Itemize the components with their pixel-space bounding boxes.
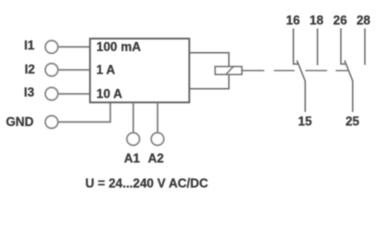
svg-text:U = 24...240 V AC/DC: U = 24...240 V AC/DC xyxy=(85,177,208,191)
terminal circle A2 xyxy=(151,133,164,146)
svg-text:28: 28 xyxy=(356,14,370,28)
contact arm 15-16 xyxy=(297,60,305,112)
wire I2 to box xyxy=(59,69,90,71)
svg-text:10 A: 10 A xyxy=(96,87,122,101)
wire box to A1 xyxy=(132,102,134,132)
relay coil K1 xyxy=(215,67,242,75)
wire box to coil bottom xyxy=(189,75,229,89)
wire coil to linkage xyxy=(242,70,264,72)
svg-text:26: 26 xyxy=(333,14,347,28)
svg-text:18: 18 xyxy=(310,14,324,28)
wire I1 to box xyxy=(59,46,90,48)
coil slash xyxy=(226,66,234,75)
contact arm 25-26 xyxy=(345,60,353,112)
svg-text:25: 25 xyxy=(345,115,359,129)
wire I3 to box xyxy=(59,93,90,95)
svg-text:16: 16 xyxy=(286,14,300,28)
wire box to coil top xyxy=(189,53,229,67)
pin line 28 xyxy=(364,28,366,65)
terminal circle I2 xyxy=(45,63,58,76)
svg-text:100 mA: 100 mA xyxy=(96,40,140,54)
terminal circle GND xyxy=(45,116,58,129)
svg-text:15: 15 xyxy=(298,115,312,129)
mechanical linkage dashed line xyxy=(274,70,348,72)
svg-text:A2: A2 xyxy=(148,152,164,166)
wire GND to box bottom xyxy=(59,102,111,122)
pin line 26 xyxy=(341,28,347,64)
svg-text:I1: I1 xyxy=(24,39,34,53)
terminal circle I1 xyxy=(45,41,58,54)
terminal circle I3 xyxy=(45,87,58,100)
pin line 18 xyxy=(317,28,319,65)
pin line 16 xyxy=(293,28,299,64)
svg-text:A1: A1 xyxy=(124,152,140,166)
svg-text:GND: GND xyxy=(6,115,34,129)
svg-text:I3: I3 xyxy=(24,86,34,100)
wire box to A2 xyxy=(157,102,159,132)
svg-text:1 A: 1 A xyxy=(96,63,115,77)
module box U1 xyxy=(90,39,189,103)
svg-text:I2: I2 xyxy=(25,63,35,77)
terminal circle A1 xyxy=(127,133,140,146)
